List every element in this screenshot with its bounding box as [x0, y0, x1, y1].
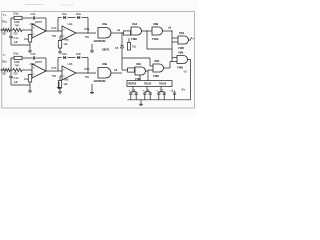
node Aa	[10, 29, 11, 30]
svg-text:s2: s2	[114, 68, 118, 72]
ground	[91, 84, 93, 93]
wire	[82, 17, 89, 19]
capacitor C1b 1uF	[10, 70, 12, 76]
mark	[25, 4, 44, 6]
svg-text:V+: V+	[182, 88, 186, 92]
svg-text:U5A: U5A	[179, 31, 184, 35]
resistor R8b 10k	[60, 75, 62, 77]
ground wire	[11, 84, 30, 86]
wire	[121, 48, 123, 70]
wire	[122, 32, 124, 34]
wire	[188, 59, 191, 61]
svg-text:U3a: U3a	[102, 22, 107, 26]
terminal T-	[1, 69, 3, 71]
wire	[142, 30, 153, 32]
wire	[46, 70, 62, 72]
gate G3 U5A	[172, 37, 178, 39]
svg-text:U4B: U4B	[153, 22, 158, 26]
wire	[76, 72, 96, 74]
svg-text:T+: T+	[3, 13, 7, 17]
diode D2b	[77, 56, 80, 59]
op-amp U1a OP07	[32, 24, 46, 38]
svg-text:U5B: U5B	[178, 51, 183, 55]
svg-text:740: 740	[15, 64, 20, 68]
wire	[10, 18, 12, 30]
wire	[146, 70, 149, 72]
resistor R11	[128, 38, 130, 43]
svg-text:S8671: S8671	[102, 48, 110, 52]
wire	[57, 18, 59, 32]
op-amp U2a	[62, 26, 76, 40]
svg-text:7408: 7408	[178, 46, 184, 50]
capacitor C3b 470pF	[32, 56, 34, 60]
ground	[29, 85, 31, 91]
node J2	[146, 30, 147, 31]
svg-text:D2b: D2b	[76, 52, 81, 56]
svg-text:750: 750	[85, 75, 90, 79]
terminal T+	[1, 29, 3, 31]
op-amp U1b OP07	[32, 64, 46, 78]
wire	[111, 32, 122, 34]
svg-text:U3b: U3b	[102, 62, 107, 66]
resistor R8a 10k	[60, 35, 62, 37]
wire	[139, 75, 141, 81]
wire	[35, 17, 46, 19]
svg-text:D5: D5	[115, 46, 119, 50]
svg-text:7486: 7486	[153, 74, 159, 78]
svg-text:U4C: U4C	[136, 62, 141, 66]
svg-text:1µF: 1µF	[14, 80, 19, 84]
svg-text:R7b: R7b	[52, 66, 57, 70]
svg-text:R7a: R7a	[52, 26, 57, 30]
op-amp U2b	[62, 66, 76, 80]
wire	[22, 29, 32, 31]
wire	[164, 67, 171, 69]
wire	[111, 72, 122, 74]
svg-text:C3b: C3b	[31, 52, 36, 56]
wire	[171, 31, 173, 62]
svg-text:100k: 100k	[14, 60, 20, 64]
svg-text:C3a: C3a	[31, 12, 36, 16]
svg-text:s3: s3	[168, 26, 171, 30]
svg-text:R8b: R8b	[64, 79, 69, 82]
ground	[140, 100, 142, 105]
svg-text:750: 750	[13, 72, 18, 76]
wire	[35, 57, 46, 59]
node Ca	[87, 32, 88, 33]
resistor R2b 750	[13, 68, 22, 71]
node Cb	[87, 72, 88, 73]
ground	[59, 48, 61, 52]
svg-text:AD790JN: AD790JN	[94, 39, 106, 43]
svg-text:U4A: U4A	[132, 22, 137, 26]
svg-text:740: 740	[15, 24, 20, 28]
wire	[122, 57, 150, 59]
wire	[82, 57, 89, 59]
svg-text:78L05: 78L05	[144, 83, 152, 86]
wire	[11, 17, 14, 19]
node J1	[121, 32, 122, 33]
wire	[163, 30, 173, 32]
wire	[57, 58, 59, 72]
svg-text:U2b: U2b	[68, 62, 73, 66]
gate G1 U4A	[130, 32, 133, 34]
svg-text:750: 750	[2, 72, 7, 76]
svg-text:D1a: D1a	[62, 12, 67, 16]
svg-text:R1a: R1a	[2, 20, 7, 24]
svg-text:P+: P+	[191, 37, 195, 41]
resistor R5b 10k	[29, 73, 31, 76]
svg-text:D2a: D2a	[76, 12, 81, 16]
svg-text:D1b: D1b	[62, 52, 67, 56]
bottom rail	[128, 99, 191, 101]
svg-text:R1b: R1b	[2, 60, 7, 64]
wire	[132, 87, 134, 92]
capacitor C3a 470pF	[32, 16, 34, 20]
svg-text:U2a: U2a	[68, 22, 73, 26]
resistor R3b 100k	[14, 56, 22, 59]
gate G4 U5B	[172, 57, 177, 59]
wire	[29, 82, 31, 85]
svg-text:s1: s1	[117, 28, 121, 32]
gate G5 U4C	[135, 67, 146, 75]
diode D1b	[63, 56, 66, 59]
svg-text:OP07: OP07	[35, 60, 43, 64]
wire	[134, 69, 137, 71]
wire	[22, 69, 32, 71]
svg-text:1µF: 1µF	[14, 40, 19, 44]
wire	[146, 31, 148, 49]
gate G6 U4D	[153, 64, 164, 72]
svg-text:79L05: 79L05	[159, 83, 167, 86]
wire	[10, 58, 12, 70]
svg-text:7486: 7486	[131, 37, 137, 41]
svg-text:+: +	[156, 88, 158, 92]
wire	[76, 32, 96, 34]
svg-text:7408: 7408	[177, 65, 183, 69]
wire	[149, 58, 151, 66]
resistor R5a 10k	[29, 33, 31, 36]
diode D1a	[63, 16, 66, 19]
power box U6	[127, 81, 172, 87]
resistor R1a 750	[3, 28, 10, 31]
gate G2 U4B	[152, 27, 163, 35]
ground	[91, 44, 93, 51]
svg-text:V3: V3	[184, 70, 188, 74]
svg-text:R11: R11	[132, 46, 137, 49]
ground	[59, 88, 61, 92]
svg-text:C1a: C1a	[14, 36, 19, 40]
resistor R12	[128, 68, 135, 72]
svg-text:750: 750	[85, 35, 90, 39]
wire	[11, 57, 14, 59]
ground wire	[11, 44, 30, 46]
mark	[60, 4, 74, 6]
svg-text:+: +	[142, 88, 144, 92]
svg-text:750: 750	[52, 74, 57, 78]
wire	[10, 29, 13, 31]
svg-text:T-: T-	[3, 53, 6, 57]
comparator U3a AD790JN	[98, 28, 111, 39]
ground	[58, 82, 60, 88]
svg-text:REF02: REF02	[129, 83, 137, 86]
svg-text:OP07: OP07	[35, 20, 43, 24]
svg-text:750: 750	[2, 32, 7, 36]
wire	[46, 30, 62, 32]
svg-text:R3b: R3b	[14, 52, 19, 56]
svg-text:C1b: C1b	[14, 76, 19, 80]
wire	[121, 33, 123, 44]
wire	[68, 17, 76, 19]
wire	[160, 87, 162, 92]
svg-text:750: 750	[52, 34, 57, 38]
node Ab	[10, 69, 11, 70]
comparator U3b AD790JN	[98, 68, 111, 79]
node Ba	[45, 30, 46, 31]
wire	[189, 39, 192, 41]
wire	[10, 69, 13, 71]
resistor R3a 100k	[14, 16, 22, 19]
svg-text:100k: 100k	[14, 20, 20, 24]
node Bb	[45, 70, 46, 71]
svg-text:750: 750	[13, 32, 18, 36]
ground	[29, 45, 31, 51]
svg-text:R8a: R8a	[64, 39, 69, 42]
svg-text:AD790JN: AD790JN	[94, 79, 106, 83]
resistor R10	[124, 31, 131, 35]
svg-text:R9b: R9b	[85, 67, 90, 71]
border frame	[2, 11, 195, 108]
svg-text:R9a: R9a	[85, 27, 90, 31]
resistor R1b 750	[3, 68, 10, 71]
wire	[147, 71, 149, 81]
svg-text:U4D: U4D	[154, 59, 159, 63]
svg-text:R3a: R3a	[14, 12, 19, 16]
diode D2a	[77, 16, 80, 19]
diode D5	[120, 45, 123, 48]
capacitor C1a 1uF	[10, 30, 12, 36]
wire	[146, 87, 148, 92]
svg-text:+: +	[128, 88, 130, 92]
wire	[68, 57, 76, 59]
wire	[29, 42, 31, 45]
svg-text:74HC: 74HC	[152, 37, 159, 41]
wire	[122, 69, 128, 71]
resistor R2a 750	[13, 28, 22, 31]
